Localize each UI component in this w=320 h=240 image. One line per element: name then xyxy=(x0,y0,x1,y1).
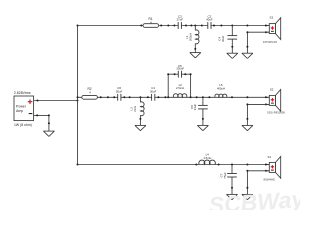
svg-text:30uF: 30uF xyxy=(150,89,157,93)
ground under amp xyxy=(43,130,54,132)
wire V1 - to ground xyxy=(34,114,49,116)
svg-text:330nF: 330nF xyxy=(176,67,184,71)
wire tank top right xyxy=(182,73,191,75)
ground under C7 xyxy=(227,193,238,195)
capacitor C5 xyxy=(176,64,184,78)
speaker S3 tweeter xyxy=(263,16,281,44)
svg-text:2.5mH: 2.5mH xyxy=(176,86,184,90)
svg-text:40uF: 40uF xyxy=(206,18,213,22)
wire S1 minus return xyxy=(247,170,269,172)
svg-text:4.5mH: 4.5mH xyxy=(203,156,211,160)
capacitor C6 xyxy=(116,86,123,101)
speaker S1 woofer xyxy=(263,155,280,182)
ground under L3 xyxy=(135,124,146,126)
LC tank right riser xyxy=(190,74,192,97)
wire top branch mid xyxy=(181,25,207,27)
svg-text:33uF: 33uF xyxy=(193,104,197,111)
junction S3 return xyxy=(246,31,248,33)
wire mid branch seg3 xyxy=(155,96,269,98)
wire vertical bus xyxy=(77,26,79,165)
junction dots bottom branch xyxy=(195,164,197,166)
wire V1 + output xyxy=(34,100,78,102)
corner dot xyxy=(48,114,50,116)
svg-text:200uH: 200uH xyxy=(188,33,192,41)
resistor R2 xyxy=(82,87,98,99)
speaker S2 midrange xyxy=(265,87,285,114)
junction dots tank xyxy=(167,73,169,75)
capacitor C7 shunt xyxy=(220,165,237,195)
svg-text:50uF: 50uF xyxy=(116,89,123,93)
capacitor C8 shunt xyxy=(190,97,208,125)
pin dot S1 ground xyxy=(246,187,248,189)
pin dot C4 ground xyxy=(231,46,233,48)
wire top branch right xyxy=(211,25,269,27)
ground under S2 xyxy=(242,124,253,126)
inductor L2 xyxy=(173,83,187,97)
svg-text:19TD05-08: 19TD05-08 xyxy=(263,40,277,44)
ground under S3 xyxy=(242,52,253,54)
node L1 tee xyxy=(194,25,196,27)
pin dot S3 ground xyxy=(246,46,248,48)
inductor L3 shunt xyxy=(129,97,144,125)
svg-text:75uF: 75uF xyxy=(223,172,227,179)
capacitor C3 xyxy=(177,14,184,29)
inductor L1 shunt xyxy=(185,26,199,53)
ground under C4 xyxy=(227,52,238,54)
LC tank left riser xyxy=(167,74,169,97)
junction S2 return xyxy=(246,103,248,105)
inductor L4 xyxy=(199,153,216,165)
svg-text:Amp: Amp xyxy=(16,109,23,113)
svg-text:1W (8 ohm): 1W (8 ohm) xyxy=(14,123,32,127)
junction dots mid branch xyxy=(100,96,102,98)
junction bus/amp+ xyxy=(77,100,79,102)
pin dot C8 ground xyxy=(202,118,204,120)
junction dots top branch xyxy=(140,25,142,27)
svg-text:400uH: 400uH xyxy=(217,86,225,90)
power source V1 (Power Amp) xyxy=(14,96,34,121)
ground under S1 xyxy=(242,193,253,195)
svg-text:SDS-P830656: SDS-P830656 xyxy=(267,110,285,114)
capacitor C1 xyxy=(150,86,157,101)
pin dot C7 ground xyxy=(231,187,233,189)
inductor L5 xyxy=(215,83,227,97)
resistor R1 xyxy=(143,17,159,27)
svg-text:S1: S1 xyxy=(268,155,272,159)
ground under C8 xyxy=(197,124,208,126)
node C7 tee xyxy=(231,164,233,166)
wire S3 minus return xyxy=(247,31,269,33)
svg-text:2.828Vrms: 2.828Vrms xyxy=(14,91,31,95)
svg-text:8SW4HE: 8SW4HE xyxy=(263,177,275,181)
wire mid branch seg1 xyxy=(78,96,118,98)
pin dot L3 ground xyxy=(139,118,141,120)
wire tank top left xyxy=(168,73,178,75)
svg-text:27uF: 27uF xyxy=(177,18,184,22)
ground under L1 xyxy=(190,52,201,54)
junction bus mid xyxy=(77,96,79,98)
pin dot S2 ground xyxy=(246,118,248,120)
junction S1 return xyxy=(246,170,248,172)
capacitor C2 xyxy=(206,14,213,29)
node C8 tee xyxy=(202,96,204,98)
wire top branch left xyxy=(78,25,179,27)
wire S2 minus return xyxy=(247,103,269,105)
pin dot ground xyxy=(48,122,50,124)
svg-text:2mH: 2mH xyxy=(133,106,137,112)
capacitor C4 shunt xyxy=(217,26,237,54)
wire mid branch seg2 xyxy=(121,96,152,98)
wire bottom branch xyxy=(78,164,270,166)
svg-text:S2: S2 xyxy=(270,87,274,91)
junction bus bottom xyxy=(77,164,79,166)
pin dot V1 + xyxy=(37,100,39,102)
junction bus top xyxy=(77,25,79,27)
pin dot L1 ground xyxy=(194,48,196,50)
node C4 tee xyxy=(231,25,233,27)
pin dot V1 - xyxy=(36,114,38,116)
node L3 tee xyxy=(139,96,141,98)
svg-text:S3: S3 xyxy=(270,16,274,20)
svg-text:30uF: 30uF xyxy=(221,35,225,42)
